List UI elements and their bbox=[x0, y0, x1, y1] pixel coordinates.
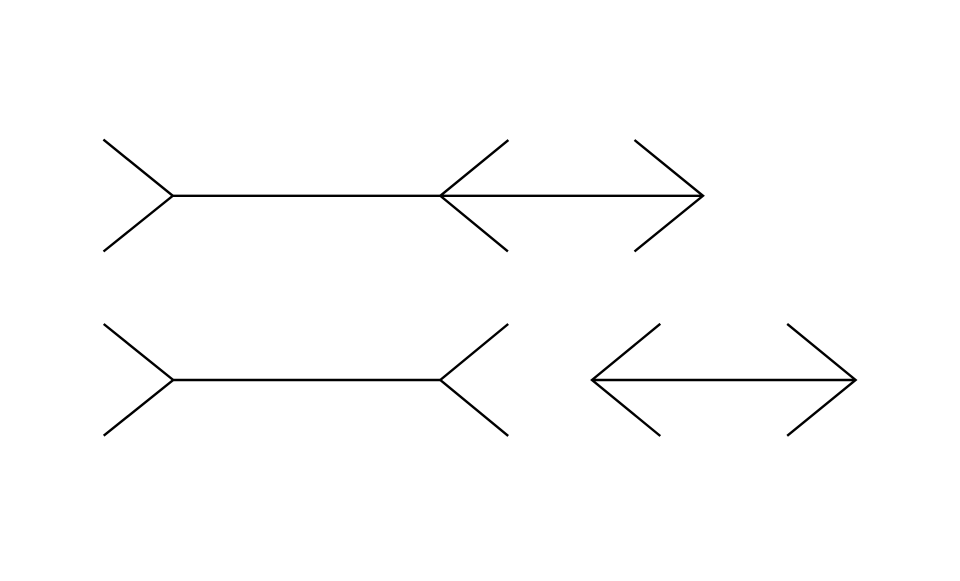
fins at node V4 (bottom-left figure, left end, pointing left) bbox=[104, 324, 174, 436]
arrowhead at node V6 (bottom-right figure, left end, pointing left) bbox=[592, 324, 660, 436]
fins at node V5 (bottom-left figure, right end, pointing right) bbox=[440, 324, 508, 436]
fins at node V1 (top-left, pointing left) bbox=[103, 140, 172, 252]
wire: top Muller-Lyer shaft from node V1 to node V3 bbox=[173, 195, 703, 197]
wire: bottom-left shaft from node V4 to node V5 bbox=[173, 379, 440, 381]
fins at node V3 (top-right, pointing left) bbox=[635, 140, 704, 252]
arrowhead at node V7 (bottom-right figure, right end, pointing right) bbox=[787, 324, 855, 436]
fins at node V2 (top-middle, pointing right) bbox=[440, 140, 508, 251]
wire: bottom-right arrow shaft from node V6 to node V7 bbox=[592, 379, 856, 381]
